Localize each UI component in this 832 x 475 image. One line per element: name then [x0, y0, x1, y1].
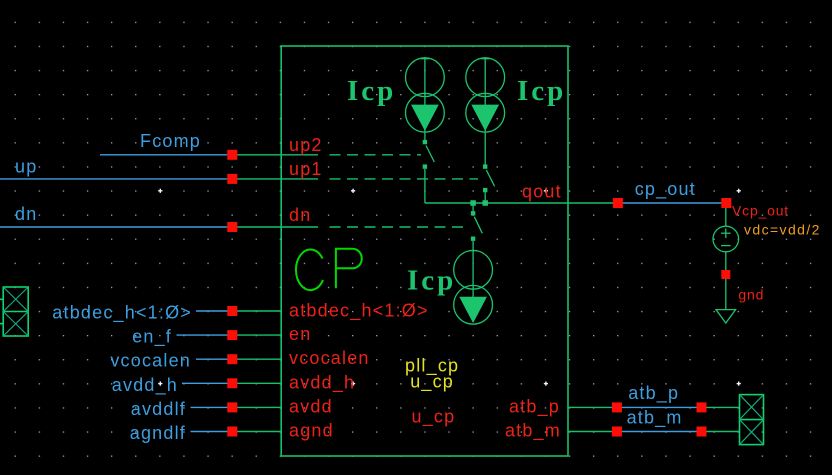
instance U1 symbol box (CP charge pump) [281, 46, 568, 456]
svg-text:avddlf: avddlf [131, 399, 186, 419]
svg-text:agnd: agnd [289, 421, 334, 441]
svg-text:Fcomp: Fcomp [140, 131, 201, 151]
pin square avdd [227, 402, 237, 412]
pin square up1 [227, 174, 237, 184]
svg-text:atb_p: atb_p [628, 383, 679, 404]
pin stub atb_m left [568, 431, 617, 433]
svg-text:Icp: Icp [347, 75, 396, 107]
switch S1 (up2) [423, 140, 435, 203]
svg-text:atb_m: atb_m [505, 421, 561, 442]
svg-text:up1: up1 [289, 159, 323, 179]
svg-text:avdd: avdd [289, 396, 333, 416]
pin square dn [227, 222, 237, 232]
svg-text:agndlf: agndlf [130, 423, 186, 443]
pin stub agnd [232, 431, 281, 433]
pin square atb_m right [697, 427, 707, 437]
voltage source V0 vdc [713, 207, 739, 310]
svg-text:dn: dn [289, 205, 311, 225]
ground symbol [716, 310, 736, 323]
dashed control line up2 [330, 154, 422, 156]
junction node at qout wire [470, 200, 476, 206]
pin stub atb_m right [702, 431, 740, 433]
svg-text:avdd_h: avdd_h [289, 372, 355, 393]
big CP label [296, 249, 362, 290]
svg-text:atbdec_h<1:Ø>: atbdec_h<1:Ø> [52, 303, 192, 324]
pin stub atb_p right [702, 406, 740, 408]
major grid markers [158, 189, 741, 386]
svg-text:u_cp: u_cp [412, 407, 456, 428]
svg-text:up2: up2 [289, 135, 323, 155]
pin square up2 [227, 150, 237, 160]
svg-text:atb_m: atb_m [627, 408, 683, 429]
pin square atb_m left [612, 427, 622, 437]
current source I2 Icp [466, 57, 505, 166]
svg-text:Vcp_out: Vcp_out [732, 202, 789, 218]
pin stub avdd_h [232, 382, 281, 384]
wire avdd_h [182, 382, 229, 384]
svg-text:dn: dn [15, 204, 37, 224]
wire en_f [177, 334, 230, 336]
pin stub dn [232, 226, 318, 228]
svg-text:cp_out: cp_out [635, 179, 696, 200]
test pad symbol left (X boxes) [0, 287, 28, 336]
svg-text:vdc=vdd/2: vdc=vdd/2 [744, 222, 821, 238]
svg-text:Icp: Icp [517, 75, 566, 107]
wire atb_p [617, 406, 702, 408]
pin stub qout / output wire [425, 202, 618, 204]
test pad symbol right (X boxes) [740, 395, 764, 445]
svg-text:qout: qout [522, 182, 562, 202]
pin stub atb_p left [568, 406, 617, 408]
wire agndlf [191, 431, 230, 433]
pin square atb_p right [697, 402, 707, 412]
switch S3 (dn) [471, 203, 482, 241]
pin stub en [232, 334, 281, 336]
current source I3 Icp [454, 241, 493, 324]
pin square atbdec_h [227, 306, 237, 316]
svg-text:vcocalen: vcocalen [289, 348, 370, 368]
svg-text:avdd_h: avdd_h [112, 375, 178, 396]
pin square agnd [227, 427, 237, 437]
current source I1 Icp [406, 57, 445, 142]
pin square en [227, 330, 237, 340]
wire dn (net to dn pin) [0, 226, 227, 228]
pin square atb_p left [612, 402, 622, 412]
wire cp_out [618, 202, 726, 204]
pin square avdd_h [227, 378, 237, 388]
svg-text:atbdec_h<1:Ø>: atbdec_h<1:Ø> [289, 301, 429, 322]
pin stub atbdec_h [232, 310, 281, 312]
pin square vsrc bottom [721, 270, 730, 279]
svg-text:en_f: en_f [132, 327, 172, 348]
wire Fcomp (net to up2 pin) [100, 154, 227, 156]
wire avddlf [191, 406, 230, 408]
dashed control line up1 [330, 178, 479, 180]
pin stub vcocalen [232, 358, 281, 360]
svg-text:vcocalen: vcocalen [110, 351, 191, 371]
pin stub up2 [232, 154, 318, 156]
svg-text:u_cp: u_cp [410, 372, 454, 393]
dashed control line dn [330, 226, 467, 228]
svg-text:en: en [289, 324, 311, 344]
svg-text:Icp: Icp [407, 264, 456, 296]
wire atbdec_h<1:0> [196, 310, 229, 312]
wire vcocalen [196, 358, 229, 360]
pin square qout [613, 198, 623, 208]
wire up (net to up1 pin) [0, 178, 227, 180]
wire atb_m [617, 431, 702, 433]
pin stub avdd [232, 406, 281, 408]
pin square vcocalen [227, 354, 237, 364]
svg-text:up: up [15, 156, 37, 176]
pin stub up1 [232, 178, 318, 180]
svg-text:gnd: gnd [738, 287, 764, 303]
pin square cp_out/vsrc top [721, 198, 731, 208]
switch S2 (up1) [483, 164, 495, 203]
svg-text:atb_p: atb_p [509, 396, 560, 417]
